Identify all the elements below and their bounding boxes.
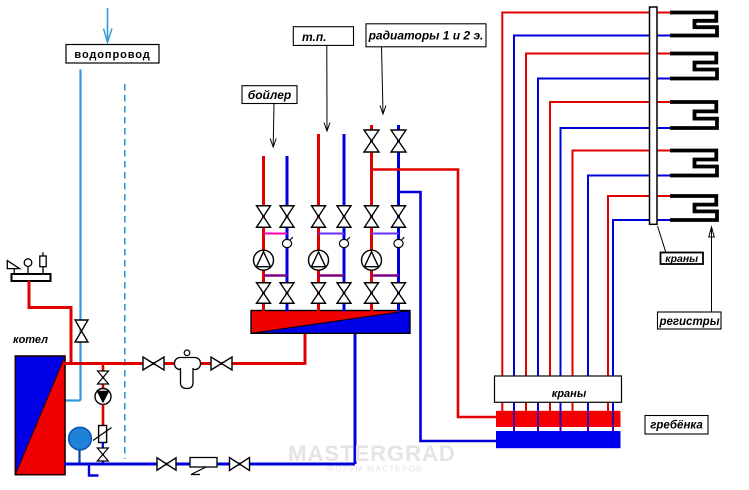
radiators check valve (394, 237, 404, 247)
boiler (kotel) (15, 356, 65, 475)
radiators supply valve top (365, 206, 379, 228)
radiators return pipe (397, 125, 400, 312)
boiler DHW supply valve bottom (257, 283, 271, 304)
radiators circulation pump (362, 250, 382, 270)
air vent (40, 252, 46, 274)
boiler DHW supply pipe (262, 156, 265, 312)
valves box on risers (495, 376, 622, 402)
return riser 2 (538, 79, 670, 447)
supply riser 2 (526, 54, 670, 412)
register 2 (670, 54, 717, 79)
supply riser 5 (608, 196, 670, 411)
arrow floor heating (324, 45, 330, 131)
dashed hot water pipe (124, 84, 126, 459)
expansion tank stem (78, 449, 80, 464)
svg-text:т.п.: т.п. (302, 30, 327, 44)
floor heating lower bypass (319, 274, 345, 276)
floor heating check valve (339, 237, 349, 247)
pointer line to valves strip (658, 226, 667, 253)
supply riser 3 (550, 102, 670, 411)
boiler DHW circulation pump (254, 250, 274, 270)
collector (manifold) (251, 311, 410, 334)
supply valve 1 (143, 357, 164, 370)
floor heating return valve top (337, 206, 351, 228)
filter on pump branch (93, 426, 112, 443)
register 5 (670, 196, 717, 220)
return riser 5 (613, 220, 670, 446)
return filter (190, 458, 217, 475)
boiler return pipe (64, 463, 355, 466)
svg-text:котел: котел (13, 334, 48, 346)
boiler circulation pump (95, 389, 111, 405)
riser supply to collector (304, 331, 307, 365)
pointer arrow to registers (709, 227, 715, 312)
watermark (288, 441, 456, 474)
cold water pipe (solid) (79, 70, 81, 401)
svg-text:краны: краны (665, 253, 698, 265)
floor heating supply valve top (312, 206, 326, 228)
pump branch pipe (red upper) (102, 364, 105, 390)
pressure gauge (24, 259, 32, 274)
arrow radiators (380, 47, 386, 114)
supply valve 2 (211, 357, 232, 370)
boiler DHW supply valve top (257, 206, 271, 228)
label box valves (registers) (661, 253, 704, 266)
label box radiators (366, 24, 486, 47)
svg-text:водопровод: водопровод (74, 49, 150, 61)
svg-text:MASTERGRAD: MASTERGRAD (288, 441, 456, 466)
manifold supply bar (496, 411, 621, 427)
label box floor heating (293, 27, 353, 46)
boiler DHW upper bypass (264, 233, 288, 235)
svg-text:регистры: регистры (658, 316, 719, 328)
return riser 3 (561, 128, 671, 446)
radiators upper bypass (372, 233, 399, 235)
supply riser 4 (573, 151, 671, 412)
boiler DHW return valve bottom (280, 283, 294, 304)
return riser 1 (514, 36, 670, 447)
register 1 (670, 13, 717, 36)
register 3 (670, 102, 717, 128)
expansion tank (69, 427, 92, 450)
return riser 4 (588, 176, 670, 447)
cold water pipe elbow into boiler (64, 399, 81, 401)
register 4 (670, 151, 717, 176)
floor heating circulation pump (309, 250, 329, 270)
floor heating supply valve bottom (312, 283, 326, 304)
radiators supply valve bottom (365, 283, 379, 304)
branch supply to manifold risers (372, 170, 498, 418)
return riser stubs through supply bar (514, 411, 613, 431)
riser return from collector (354, 333, 357, 464)
boiler DHW return valve top (280, 206, 294, 228)
svg-text:бойлер: бойлер (248, 88, 291, 102)
register valves strip (650, 7, 658, 224)
boiler DHW check valve (282, 237, 292, 247)
valve on cold water pipe (75, 320, 88, 342)
radiators supply shutoff valve (364, 130, 379, 152)
cold water inlet arrow (107, 8, 109, 42)
branch return from manifold risers (399, 192, 498, 441)
supply riser 1 (502, 13, 670, 412)
label box vodoprovod (66, 45, 159, 64)
pump branch valve bottom (97, 448, 108, 461)
floor heating return valve bottom (337, 283, 351, 304)
manifold return bar (496, 431, 621, 448)
boiler DHW lower bypass (264, 274, 288, 276)
floor heating upper bypass (319, 233, 345, 235)
boiler DHW return pipe (286, 156, 289, 312)
svg-text:радиаторы 1 и 2 э.: радиаторы 1 и 2 э. (368, 29, 484, 43)
radiators return valve bottom (392, 283, 406, 304)
radiators lower bypass (372, 274, 399, 276)
pump branch valve top (98, 371, 109, 384)
return valve 1 (157, 458, 176, 471)
pump branch pipe (red to filter) (102, 405, 105, 427)
radiators return shutoff valve (391, 130, 406, 152)
label box grebyonka (645, 416, 708, 435)
relief valve triangle (7, 261, 19, 274)
floor heating return pipe (343, 134, 346, 312)
svg-text:гребёнка: гребёнка (650, 420, 703, 432)
label box boiler DHW (242, 86, 297, 104)
return valve 2 (230, 458, 250, 471)
boiler drain elbow (89, 465, 99, 476)
svg-text:краны: краны (552, 388, 587, 400)
label box registers (658, 312, 722, 329)
safety group manifold bar (12, 274, 51, 281)
pump branch pipe (blue lower) (102, 443, 104, 465)
dirt/air separator (175, 350, 201, 389)
arrow boiler DHW (270, 104, 276, 148)
boiler supply pipe (64, 362, 305, 365)
pipe from safety group to boiler supply (29, 281, 71, 364)
floor heating supply pipe (317, 134, 320, 312)
radiators supply pipe (370, 125, 373, 312)
svg-text:ФОРУМ МАСТЕРОВ: ФОРУМ МАСТЕРОВ (327, 464, 423, 474)
radiators return valve top (392, 206, 406, 228)
